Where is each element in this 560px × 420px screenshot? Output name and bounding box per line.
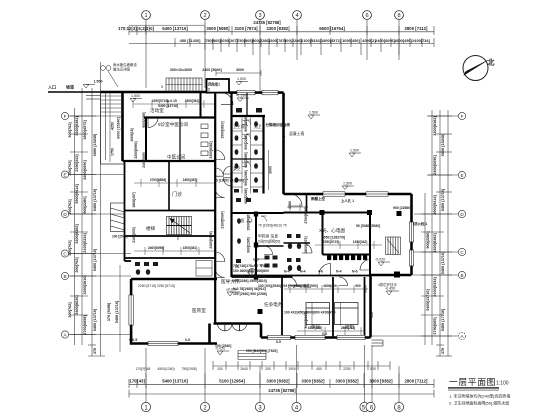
partition left block y236 stair room (125, 235, 216, 237)
door corridor west y268 (215, 268, 225, 278)
svg-text:5400 [17736]: 5400 [17736] (441, 308, 445, 331)
dim line row2 (129, 43, 434, 45)
svg-text:3: 3 (258, 13, 261, 19)
entrance double door right (232, 324, 239, 331)
left block service band fixtures (135, 262, 158, 275)
svg-text:1500[3810]: 1500[3810] (221, 121, 225, 138)
svg-text:900: 900 (370, 312, 374, 318)
svg-text:3300 [8382]: 3300 [8382] (369, 379, 393, 384)
svg-text:±0.000: ±0.000 (226, 288, 237, 292)
small dim texts inside plan (129, 99, 427, 353)
west porch outline (100, 91, 102, 164)
svg-text:F: F (461, 114, 464, 119)
svg-text:2400[6096]: 2400[6096] (375, 38, 396, 43)
svg-text:5400 [13716]: 5400 [13716] (162, 26, 188, 31)
svg-text:2400[6096]: 2400[6096] (209, 231, 213, 248)
xray room south wall y254.5 (323, 254, 371, 256)
dim line 3000 above vestibule (216, 70, 261, 76)
right wing hall wall y212.5 (284, 212, 371, 214)
svg-text:6600 [16764]: 6600 [16764] (319, 26, 345, 31)
east zone wall below toilets (232, 276, 293, 278)
svg-text:3900[9414]: 3900[9414] (433, 195, 437, 215)
west porch rotated dim texts (111, 117, 121, 156)
axis bubble 1 top (142, 11, 404, 20)
svg-text:5400 [13716]: 5400 [13716] (162, 379, 188, 384)
svg-text:门诊: 门诊 (172, 191, 182, 198)
axis leader lines to plan (69, 115, 125, 117)
svg-text:B: B (63, 274, 66, 279)
door top-left room (148, 118, 158, 128)
partitions top-left rooms x146 x200 x180 (145, 118, 147, 162)
window in east wall right wing (409, 222, 413, 266)
svg-text:3300[8382]: 3300[8382] (433, 116, 437, 136)
svg-text:6: 6 (365, 13, 368, 19)
svg-text:900[2286]: 900[2286] (142, 112, 146, 127)
svg-text:1.500: 1.500 (131, 94, 140, 98)
level 1.500 at vestibule (236, 82, 248, 86)
misc inner chain texts (148, 99, 367, 330)
left dimension strip (69, 62, 132, 356)
svg-text:2700[6858]: 2700[6858] (150, 178, 166, 182)
svg-text:雨水管沿墙敷设: 雨水管沿墙敷设 (113, 62, 137, 67)
door toilet y166 (224, 166, 232, 174)
svg-text:24735 [82788]: 24735 [82788] (253, 20, 281, 25)
column right wing a (320, 210, 325, 215)
corridor center dim text column (221, 116, 251, 252)
svg-text:100 4X2(450)|4600|800 4X00|X00: 100 4X2(450)|4600|800 4X00|X00 (284, 311, 336, 315)
right wing interior dim column (288, 201, 374, 329)
svg-text:1350[342]: 1350[342] (353, 240, 368, 244)
svg-text:100 [XX](2540) *03 [70](900) 坐: 100 [XX](2540) *03 [70](900) 坐盖[900] (258, 283, 318, 288)
door corridor west y188 (215, 188, 225, 198)
title block (448, 377, 510, 406)
door lower-right room b (339, 277, 348, 286)
svg-text:6000 [15240]: 6000 [15240] (117, 117, 121, 138)
right wing partition x306.5 (306, 194, 308, 213)
svg-text:900: 900 (370, 367, 376, 371)
svg-text:6000 [15240]: 6000 [15240] (441, 133, 445, 156)
svg-text:370: 370 (441, 348, 445, 354)
door at lower-right inner corner (360, 260, 371, 271)
svg-text:坡道: 坡道 (66, 84, 74, 90)
svg-text:300[762]: 300[762] (68, 122, 72, 138)
level symbol at entrance steps (217, 351, 229, 355)
svg-text:4-6: 4-6 (318, 270, 323, 274)
level symbol -0.020 right wing (378, 262, 390, 266)
level symbol 1.500 above wing (342, 186, 354, 190)
toilet zone top wall (232, 115, 266, 117)
bed lower-right room b (335, 303, 359, 326)
svg-text:1050[267]: 1050[267] (220, 38, 238, 43)
svg-text:3300[838]: 3300[838] (308, 326, 323, 330)
west inner chain line (109, 92, 111, 162)
svg-text:5400 [13716]: 5400 [13716] (93, 248, 97, 271)
corridor west wall (214, 93, 216, 324)
exterior wall east of lower-right block (369, 275, 372, 338)
exterior wall east of upper block (282, 93, 285, 194)
svg-text:2700[6858]: 2700[6858] (304, 206, 308, 223)
svg-text:100 [2540]: 100 [2540] (215, 344, 231, 348)
svg-text:100 [2540] 900 [2286]: 100 [2540] 900 [2286] (233, 292, 267, 296)
svg-text:[消火栓]1: [消火栓]1 (413, 221, 427, 226)
rain pipe annotation top-left (101, 62, 138, 87)
svg-text:0-5: 0-5 (322, 332, 327, 336)
right strip rotated dim texts (426, 116, 445, 355)
exterior steps SE corner (372, 340, 384, 346)
svg-text:1: 1 (144, 13, 147, 19)
toilet fixtures right column (236, 108, 262, 193)
partial inner chain (213, 365, 390, 367)
svg-text:3000: 3000 (269, 166, 273, 174)
corridor cross double door (215, 168, 231, 186)
svg-text:N-4: N-4 (300, 270, 306, 274)
bottom dim row1 texts (129, 379, 428, 384)
svg-text:100: 100 (217, 367, 223, 371)
svg-text:900[2286]: 900[2286] (83, 196, 87, 214)
svg-text:2390[332]: 2390[332] (75, 154, 79, 172)
svg-text:3000 [5080]: 3000 [5080] (206, 26, 230, 31)
north arrow (463, 56, 495, 81)
svg-text:450 [11430]: 450 [11430] (180, 38, 201, 43)
xray room west wall x322.5 (322, 213, 324, 255)
window in south wall big room (148, 341, 178, 345)
toilet mid partition y159 (232, 158, 264, 160)
exterior wall north east segment (229, 91, 284, 94)
bench row right wing (327, 255, 367, 260)
svg-text:1800[4572]: 1800[4572] (321, 38, 342, 43)
svg-text:3300[8382]: 3300[8382] (433, 233, 437, 253)
exterior wall north west segment (100, 91, 207, 94)
svg-text:900[2286]: 900[2286] (244, 134, 248, 149)
svg-text:1000[18]: 1000[18] (130, 128, 134, 142)
svg-text:活动室: 活动室 (150, 107, 164, 114)
level mark mid (253, 259, 265, 263)
svg-text:X间[50]透视[50]: X间[50]透视[50] (258, 239, 280, 244)
level symbol 1.500 east mid (349, 153, 361, 157)
svg-text:5050 [12827/9]: 5050 [12827/9] (322, 236, 345, 240)
svg-text:900[2286]: 900[2286] (284, 38, 302, 43)
svg-text:2700[685]: 2700[685] (433, 317, 437, 335)
svg-text:5400 [13716]: 5400 [13716] (93, 308, 97, 331)
svg-text:2800[711]: 2800[711] (341, 326, 355, 330)
svg-text:X光、心电图: X光、心电图 (319, 227, 345, 234)
svg-text:3400[8636]: 3400[8636] (75, 295, 79, 315)
svg-text:2400[6096]: 2400[6096] (148, 246, 164, 250)
svg-text:楼梯: 楼梯 (146, 225, 156, 232)
svg-text:5400 [13716]: 5400 [13716] (93, 188, 97, 211)
svg-text:2400[6096]: 2400[6096] (83, 160, 87, 180)
svg-text:750[1905]: 750[1905] (181, 367, 196, 371)
svg-text:76 [1930] 78 [1980]: 76 [1930] 78 [1980] (214, 179, 244, 183)
svg-text:50 [5080][5080]: 50 [5080][5080] (356, 224, 380, 228)
exterior wall west of lower-left room (130, 279, 133, 344)
svg-text:3300 [8382]: 3300 [8382] (266, 379, 290, 384)
svg-text:250: 250 (265, 367, 271, 371)
svg-text:中医诊间: 中医诊间 (167, 154, 186, 161)
svg-text:5400 [13716]: 5400 [13716] (441, 251, 445, 274)
svg-text:300[762]: 300[762] (68, 199, 72, 215)
bottom dimension chain lines (129, 345, 434, 403)
svg-text:4600|800: 4600|800 (323, 284, 337, 288)
misc inner dim chains (133, 100, 382, 335)
svg-text:0-5: 0-5 (276, 340, 281, 344)
svg-text:900[2286]: 900[2286] (244, 170, 248, 185)
svg-text:76[1930] 78[1980] 36: 76[1930] 78[1980] 36 (233, 274, 266, 278)
svg-text:3300 [8382]: 3300 [8382] (301, 379, 325, 384)
svg-text:100 4600|800 4600|800: 100 4600|800 4600|800 (233, 269, 269, 273)
svg-text:5100 [12954]: 5100 [12954] (219, 379, 245, 384)
door on y246 partition (264, 246, 273, 255)
svg-text:900[2286]: 900[2286] (244, 188, 248, 203)
door top of corridor (221, 93, 233, 105)
right wing small room fixtures (287, 234, 301, 271)
entry walk line far left (48, 84, 101, 92)
top dim row1 texts (118, 26, 428, 31)
svg-text:3300[8382]: 3300[8382] (75, 224, 79, 244)
svg-text:900[2286] 1500[3810]: 900[2286] 1500[3810] (233, 279, 267, 283)
svg-text:2200[5590]: 2200[5590] (134, 141, 138, 158)
leaders to bottom bubbles (145, 348, 147, 403)
exterior wall south of right wing upper (371, 274, 412, 277)
svg-text:2700[6858]: 2700[6858] (83, 315, 87, 335)
svg-text:2250 [5715] 2250 [5715]: 2250 [5715] 2250 [5715] (138, 284, 175, 288)
middle zone partition y246 (256, 245, 284, 247)
svg-text:5400 [13716]: 5400 [13716] (115, 300, 119, 323)
left strip rotated dim texts (68, 116, 97, 355)
column entrance hall corner (258, 309, 263, 314)
svg-text:300[762]: 300[762] (68, 302, 72, 318)
door right wing partition (302, 243, 312, 253)
svg-text:1800[4572]: 1800[4572] (83, 120, 87, 140)
exterior wall south of lower-right block (261, 336, 371, 339)
svg-text:2. 卫生间地面标高降[50],做防水层: 2. 卫生间地面标高降[50],做防水层 (449, 400, 509, 406)
stall door arcs (242, 120, 267, 222)
svg-text:1.500: 1.500 (94, 80, 103, 84)
lower-right partition x333 (332, 277, 334, 338)
svg-text:3300[8382]: 3300[8382] (75, 116, 79, 136)
toilet zone east wall (262, 116, 264, 194)
exterior wall north of right wing (284, 193, 412, 196)
svg-text:2100[533]: 2100[533] (132, 227, 136, 242)
svg-text:[43]: [43] (137, 379, 145, 384)
axis leader lines from top bubbles (145, 20, 147, 88)
vestibule at top entrance (207, 79, 230, 93)
svg-text:2400[609]: 2400[609] (142, 152, 146, 167)
svg-text:4: 4 (295, 13, 298, 19)
svg-text:900: 900 (355, 284, 361, 288)
svg-text:76 [1930](4810) 75: 76 [1930](4810) 75 (258, 224, 287, 228)
lower-right partition x282 (281, 277, 283, 338)
middle zone wall y213 (232, 212, 284, 214)
svg-text:2100[5334]: 2100[5334] (433, 277, 437, 297)
svg-text:一层平面图: 一层平面图 (449, 377, 496, 387)
middle zone wall x256 (255, 213, 257, 279)
exterior wall west of upper block (121, 92, 124, 161)
entrance south wall (214, 322, 262, 325)
partition left block y117.5 (144, 116, 215, 118)
svg-text:1.500: 1.500 (350, 149, 359, 153)
middle zone fixtures (236, 198, 251, 263)
level symbol 1.500 east upper (308, 115, 320, 119)
svg-text:370: 370 (93, 348, 97, 354)
svg-text:1900: 1900 (288, 367, 296, 371)
dim line row1 (129, 31, 434, 33)
left rooms partition y243 (284, 242, 311, 244)
partition left block y161 (123, 160, 216, 162)
svg-text:1. 未注明墙体均为[240厚]页岩砖墙: 1. 未注明墙体均为[240厚]页岩砖墙 (449, 393, 510, 399)
svg-text:300×10=3000: 300×10=3000 (170, 68, 192, 72)
svg-text:3300 [8382]: 3300 [8382] (266, 26, 290, 31)
interior stair right wing (386, 237, 401, 255)
svg-text:170;12[3};6;2[3}0]: 170;12[3};6;2[3}0] (118, 26, 154, 31)
svg-text:3100 [7874]: 3100 [7874] (234, 26, 258, 31)
west exterior bay/stair (111, 203, 125, 232)
svg-text:-0.020: -0.020 (375, 258, 385, 262)
svg-text:1500[381]: 1500[381] (183, 246, 198, 250)
bottom inner chain small texts (136, 366, 376, 371)
svg-text:男卫: 男卫 (254, 124, 262, 129)
svg-text:5400 [13716]: 5400 [13716] (441, 188, 445, 211)
axis leaders from plan to right bubbles (427, 115, 458, 117)
level 1.500 inside top-left room (130, 99, 142, 103)
svg-text:1800[457]: 1800[457] (183, 178, 198, 182)
svg-text:750[905]: 750[905] (237, 38, 253, 43)
svg-text:甲药房 信息: 甲药房 信息 (258, 234, 278, 239)
svg-text:2250[5715]: 2250[5715] (152, 99, 168, 103)
svg-text:170: 170 (129, 379, 137, 384)
section marker circle (249, 269, 256, 276)
horizontal ticks on left chains (70, 116, 105, 356)
door right wing north room (290, 194, 302, 206)
svg-text:-0.150: -0.150 (236, 94, 246, 98)
door lower-right room a (288, 277, 297, 286)
row1 ticks (129, 26, 434, 35)
svg-text:250 [B40]800 [7620]: 250 [B40]800 [7620] (246, 349, 277, 353)
svg-text:750[905]: 750[905] (205, 38, 221, 43)
door corridor west y150 (215, 150, 225, 160)
partition between clinic rooms x169 (168, 161, 170, 211)
svg-text:-0.450: -0.450 (385, 287, 395, 291)
west entrance ramp lines (86, 91, 101, 93)
svg-text:900[2286]: 900[2286] (426, 231, 430, 249)
svg-text:900[2286]: 900[2286] (244, 152, 248, 167)
column right wing c (397, 211, 402, 216)
svg-text:做法见详图: 做法见详图 (113, 67, 131, 72)
top entrance exterior steps (166, 78, 202, 91)
svg-text:170[行]48: 170[行]48 (136, 366, 151, 371)
lower-right hall beam y275.5 (232, 275, 371, 277)
svg-text:370 [9398]: 370 [9398] (107, 302, 111, 321)
exterior wall south of left block (130, 342, 217, 345)
svg-text:分隔培训设备间: 分隔培训设备间 (266, 122, 291, 127)
svg-text:F: F (64, 114, 67, 119)
room labels (138, 107, 355, 331)
svg-text:E: E (63, 173, 66, 178)
svg-text:2100[5334]: 2100[5334] (221, 211, 225, 228)
svg-text:300[762]: 300[762] (75, 257, 79, 273)
svg-text:N-4: N-4 (284, 270, 290, 274)
toilet fixtures left column (234, 121, 239, 192)
svg-text:C 0-5: C 0-5 (129, 338, 137, 342)
svg-text:1050[450]: 1050[450] (342, 38, 360, 43)
svg-text:6000 [15240]: 6000 [15240] (93, 133, 97, 156)
wash basins near corridor top (201, 124, 208, 156)
svg-text:1800[4572]: 1800[4572] (304, 236, 308, 253)
partition left block y258 (125, 257, 216, 259)
svg-text:2: 2 (208, 88, 210, 92)
svg-text:900[2286]: 900[2286] (244, 116, 248, 131)
svg-text:E: E (460, 173, 463, 178)
svg-text:3900[9414]: 3900[9414] (75, 184, 79, 204)
svg-text:1:100: 1:100 (496, 381, 509, 387)
svg-text:3000: 3000 (236, 68, 244, 72)
svg-text:2400[734]: 2400[734] (412, 38, 430, 43)
svg-text:7会[748]178=M7 甲3: 7会[748]178=M7 甲3 (233, 263, 265, 268)
svg-text:1.500: 1.500 (343, 182, 352, 186)
svg-text:3300 [8382]: 3300 [8382] (335, 379, 359, 384)
svg-text:0-5: 0-5 (185, 338, 190, 342)
svg-text:风除室1: 风除室1 (208, 82, 220, 87)
svg-text:8: 8 (397, 13, 400, 19)
wall west of entrance hall (208, 324, 211, 344)
right dimension strip (372, 110, 458, 356)
svg-text:医育室: 医育室 (192, 307, 206, 314)
svg-text:3300[8382]: 3300[8382] (209, 141, 213, 158)
top dim row2 texts (180, 38, 431, 43)
lower-right partition x364.5 (364, 277, 366, 338)
inner dim column lower-left (119, 265, 121, 352)
doors (148, 93, 371, 331)
window in west wall left rooms (129, 295, 133, 325)
svg-text:N-6: N-6 (352, 270, 358, 274)
entrance hall east wall (260, 324, 263, 338)
svg-text:b-0.15: b-0.15 (167, 99, 177, 103)
svg-text:1.500: 1.500 (237, 77, 246, 81)
svg-text:1500[3810]: 1500[3810] (83, 275, 87, 295)
svg-text:1800[450]: 1800[450] (394, 38, 412, 43)
svg-text:24735 [82788]: 24735 [82788] (268, 388, 296, 393)
svg-text:2250: 2250 (343, 367, 351, 371)
svg-text:2400 [8094]: 2400 [8094] (202, 68, 221, 72)
svg-text:2800 [7112]: 2800 [7112] (405, 26, 429, 31)
inner wall x370 (369, 213, 371, 276)
svg-text:1500[3810]: 1500[3810] (247, 213, 251, 230)
toilet stalls upper zone (232, 118, 264, 194)
windows north wall right wing (323, 192, 388, 196)
toilet anteroom divider x247 (246, 93, 248, 116)
exterior wall east of right wing (410, 194, 413, 275)
svg-text:卫生间: 卫生间 (233, 124, 245, 129)
counter rects mid zone (265, 256, 278, 268)
svg-text:2100[5334]: 2100[5334] (301, 38, 322, 43)
level symbol ±0.000 hall (227, 292, 240, 296)
row2 ticks dense (175, 38, 434, 55)
dim line row2 overall (129, 393, 434, 395)
door corridor west y252 (215, 252, 225, 262)
svg-text:4250: 4250 (111, 122, 115, 130)
svg-text:雨棚上空: 雨棚上空 (311, 196, 325, 201)
svg-text:2800 [7112]: 2800 [7112] (405, 379, 429, 384)
svg-text:B: B (460, 273, 463, 278)
level -0.150 above toilets (237, 98, 249, 102)
svg-text:混凝土墙: 混凝土墙 (289, 131, 304, 136)
bottom axis bubbles (141, 402, 403, 411)
door right wing main room south (319, 264, 331, 276)
column lower-right corner (394, 272, 400, 278)
svg-text:1500[381]: 1500[381] (185, 99, 200, 103)
svg-text:女卫: 女卫 (233, 166, 241, 171)
svg-text:100 [2540]: 100 [2540] (112, 235, 127, 239)
